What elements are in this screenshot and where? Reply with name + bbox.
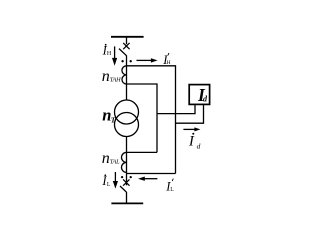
svg-text:n: n — [102, 150, 110, 167]
svg-text:L: L — [107, 182, 111, 188]
wire W4: nTAL bottom tap — [127, 173, 176, 175]
label I'L — [165, 179, 174, 194]
switch blade (low side) — [120, 186, 127, 192]
transformer nT winding 2 — [115, 113, 139, 137]
arrow current IH (down) — [112, 46, 117, 65]
svg-text:d: d — [203, 94, 208, 103]
wire W3: nTAL top tap — [127, 151, 158, 153]
svg-text:T: T — [111, 115, 116, 124]
svg-text:n: n — [102, 68, 110, 85]
wire: busbar to breaker mark — [126, 37, 128, 44]
bottom busbar — [111, 202, 143, 204]
svg-text:TAL: TAL — [110, 159, 120, 166]
wire W6: relay right lead — [176, 105, 204, 124]
label I'H — [162, 53, 170, 67]
label nTAH — [102, 68, 121, 85]
switch blade (high side) — [119, 49, 127, 56]
relay box Id — [189, 85, 209, 105]
breaker mark X (high side) — [123, 43, 129, 49]
label nTAL — [102, 150, 120, 167]
svg-text:H: H — [167, 60, 171, 66]
polarity dot (low side, left) — [121, 176, 123, 178]
wire: blade to CT nTAH — [126, 56, 128, 101]
CT coil nTAH — [122, 66, 127, 84]
wire: blade to bottom busbar — [126, 192, 128, 203]
wire W5: relay left lead — [157, 105, 195, 114]
svg-text:L: L — [170, 187, 174, 193]
polarity dot (low side, right) — [130, 176, 132, 178]
label IL — [101, 174, 111, 188]
arrow current Id (right) — [183, 127, 200, 131]
label Id (relay) — [197, 85, 208, 105]
label IH — [102, 44, 112, 58]
arrow current I'H (right) — [137, 58, 158, 62]
svg-text:TAH: TAH — [110, 76, 121, 83]
polarity dot (high side, left) — [121, 60, 123, 62]
breaker mark X (low side) — [123, 179, 129, 185]
top busbar — [111, 36, 144, 38]
arrow current IL (down) — [113, 172, 118, 189]
transformer nT winding 1 — [115, 100, 139, 124]
label Id (differential current) — [188, 133, 201, 151]
arrow current I'L (left) — [138, 177, 157, 181]
wire W1: nTAH top tap to right drop — [127, 66, 176, 174]
CT coil nTAL — [122, 152, 127, 172]
wire: transformer to CT nTAL and breaker mark — [126, 137, 128, 186]
polarity dot (high side, right) — [130, 60, 132, 62]
label nT — [102, 105, 116, 124]
svg-text:I: I — [188, 134, 195, 150]
svg-text:d: d — [197, 142, 201, 151]
wire W2: nTAH bottom tap to right drop — [127, 84, 158, 152]
svg-text:H: H — [107, 51, 112, 57]
